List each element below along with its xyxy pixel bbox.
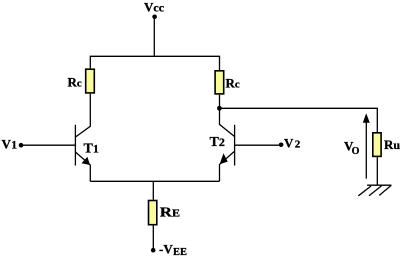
svg-text:V2: V2	[284, 136, 301, 151]
svg-text:T2: T2	[210, 135, 225, 150]
svg-text:Rc: Rc	[226, 76, 240, 91]
svg-text:RE: RE	[160, 206, 181, 221]
svg-text:Ru: Ru	[384, 137, 400, 152]
svg-text:Rc: Rc	[68, 75, 82, 90]
svg-text:Vcc: Vcc	[144, 0, 165, 15]
svg-text:T1: T1	[84, 141, 99, 156]
svg-text:V1: V1	[2, 137, 18, 152]
